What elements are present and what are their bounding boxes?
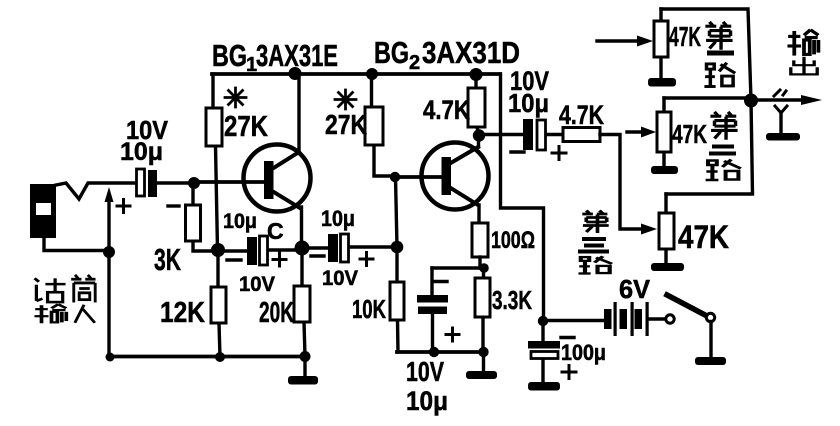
svg-text:12K: 12K — [160, 297, 205, 329]
label plus cap C — [273, 253, 286, 266]
svg-text:10V: 10V — [239, 273, 275, 296]
switch — [649, 317, 665, 320]
svg-text:C: C — [267, 218, 284, 244]
svg-text:27K: 27K — [224, 111, 268, 143]
label minus 100uF — [561, 336, 574, 339]
svg-text:10μ: 10μ — [120, 138, 163, 166]
label plus input — [117, 200, 130, 213]
transistor BG2 — [395, 143, 489, 210]
wire input cap to base node — [157, 181, 194, 184]
ground output jack — [766, 133, 800, 141]
resistor 100 ohm — [472, 223, 488, 257]
node rail left end — [106, 353, 115, 362]
capacitor bypass 10uF — [432, 266, 484, 269]
ground below pot first — [648, 78, 676, 87]
label mic input 话筒 — [35, 278, 66, 302]
wire BG2 emitter down — [477, 205, 480, 223]
svg-text:4.7K: 4.7K — [423, 95, 470, 125]
resistor 20K — [302, 248, 305, 356]
label plus 100uF — [562, 366, 576, 379]
potentiometer 47K first — [659, 9, 662, 78]
wire BG1 emitter down — [300, 207, 303, 248]
wire BG2 collector up — [477, 136, 480, 147]
node emitter junction BG2 — [479, 263, 489, 273]
label minus bypass — [434, 280, 447, 283]
capacitor output 10uF — [479, 133, 563, 136]
svg-text:BG: BG — [374, 35, 409, 70]
node base BG1 — [188, 177, 200, 189]
node 3.3K bottom — [478, 347, 488, 357]
node bias junction — [211, 243, 225, 257]
svg-text:10V: 10V — [322, 267, 358, 290]
svg-text:100μ: 100μ — [561, 340, 606, 365]
wire bottom-left ground rail — [109, 355, 305, 359]
wire supply feed down right — [501, 74, 544, 321]
label minus interstage — [311, 254, 324, 257]
node collector BG2 — [473, 129, 485, 141]
resistor 27K first — [213, 74, 218, 250]
resistor 3.3K — [481, 268, 485, 352]
capacitor input 10uF — [137, 169, 158, 197]
svg-text:4.7K: 4.7K — [559, 100, 604, 130]
asterisk second — [335, 90, 356, 109]
wiper arrow third path — [641, 224, 657, 235]
microphone input jack — [30, 184, 56, 238]
svg-text:47K: 47K — [669, 21, 701, 52]
node rail 27K second — [366, 68, 378, 80]
svg-text:10V: 10V — [406, 356, 444, 387]
resistor 4.7K series output — [563, 128, 600, 142]
wire third path feed — [600, 135, 643, 230]
ground below 3.3K — [482, 352, 485, 371]
wire output arrow — [751, 98, 805, 101]
label first path 第一路 — [705, 22, 732, 50]
label output 输出 — [787, 30, 818, 56]
label BG1 3AX31E — [212, 38, 338, 76]
label minus input cap — [168, 204, 179, 207]
wire mic to input cap (squiggle) — [56, 183, 136, 199]
resistor 3K — [193, 183, 218, 251]
svg-text:10μ: 10μ — [406, 386, 448, 416]
capacitor 100uF — [541, 321, 544, 382]
wire mic bottom to input node — [44, 238, 109, 251]
label minus cap C — [227, 258, 241, 261]
wire output bus — [661, 9, 753, 194]
svg-text:20K: 20K — [259, 297, 294, 329]
output jack symbol — [774, 90, 786, 96]
svg-text:100Ω: 100Ω — [491, 227, 535, 254]
svg-text:BG: BG — [212, 38, 247, 73]
resistor 4.7K collector — [476, 74, 479, 134]
wire input vertical to ground rail with up arrow — [107, 200, 110, 357]
label second path 第二路 — [710, 112, 737, 140]
node base BG2 — [390, 172, 400, 182]
capacitor C 10uF — [218, 250, 302, 251]
svg-text:47K: 47K — [678, 219, 729, 255]
wire top supply rail — [212, 72, 500, 76]
label mic input 输入 — [34, 304, 66, 323]
ground below switch — [695, 357, 726, 365]
node rail BG1 collector — [289, 67, 302, 80]
svg-text:10μ: 10μ — [223, 210, 257, 233]
node supply battery junction — [538, 316, 548, 326]
svg-text:10μ: 10μ — [508, 88, 549, 118]
battery 6V — [604, 302, 649, 336]
ground below pot third — [651, 263, 684, 271]
node rail 12K bottom — [215, 352, 225, 362]
label plus output cap — [552, 147, 566, 160]
wiper wire first path — [597, 39, 638, 42]
node rail 4.7K — [470, 68, 483, 81]
node bypass cap bottom — [429, 347, 439, 357]
resistor 27K second — [372, 74, 395, 176]
svg-text:47K: 47K — [672, 119, 707, 149]
svg-text:10μ: 10μ — [321, 206, 355, 231]
resistor 10K — [397, 247, 398, 352]
svg-text:10K: 10K — [352, 294, 386, 324]
node input junction — [103, 246, 115, 258]
potentiometer 47K second — [662, 98, 665, 166]
label third path 第三路 — [582, 211, 608, 234]
node rail 20K bottom — [300, 351, 311, 362]
node output — [744, 94, 758, 108]
svg-text:3K: 3K — [154, 242, 181, 277]
wire BG1 collector to rail — [297, 74, 300, 152]
transistor BG1 — [194, 145, 311, 212]
svg-text:3AX31D: 3AX31D — [422, 35, 520, 70]
svg-text:27K: 27K — [325, 109, 367, 140]
label plus interstage — [360, 253, 373, 266]
svg-text:2: 2 — [409, 52, 420, 74]
label plus bypass — [446, 328, 459, 341]
wire pot second top to bus — [664, 96, 750, 99]
svg-text:3.3K: 3.3K — [492, 285, 532, 315]
label minus output cap — [511, 150, 524, 153]
ground below 20K — [303, 356, 306, 376]
ground below 100uF — [528, 382, 560, 391]
wire BG2 base vertical — [396, 177, 398, 247]
svg-text:3AX31E: 3AX31E — [256, 38, 338, 73]
wiper wire second path — [627, 130, 642, 133]
node emitter BG1 — [295, 241, 310, 256]
resistor 12K — [218, 251, 220, 357]
node BG2 input junction — [391, 241, 404, 254]
capacitor interstage 10uF — [302, 247, 397, 248]
wire bottom middle — [397, 350, 484, 354]
potentiometer 47K third — [664, 194, 667, 263]
svg-text:6V: 6V — [619, 274, 651, 304]
asterisk first — [225, 88, 246, 107]
ground below pot second — [651, 166, 678, 174]
label BG2 3AX31D — [374, 35, 520, 74]
wire battery feed — [543, 319, 604, 322]
